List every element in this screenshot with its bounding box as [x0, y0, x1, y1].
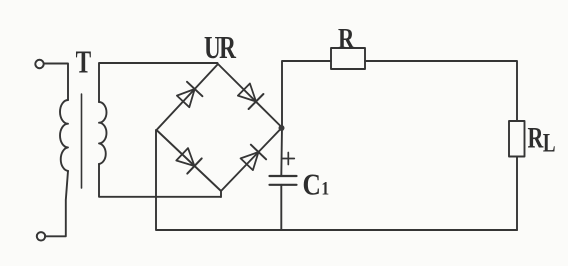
svg-text:L: L — [543, 129, 556, 158]
svg-text:R: R — [338, 22, 355, 54]
svg-text:1: 1 — [321, 178, 329, 199]
svg-text:U: U — [204, 29, 221, 64]
svg-text:T: T — [76, 44, 92, 79]
svg-text:R: R — [219, 29, 237, 64]
svg-text:R: R — [528, 121, 545, 154]
svg-text:C: C — [303, 168, 321, 202]
